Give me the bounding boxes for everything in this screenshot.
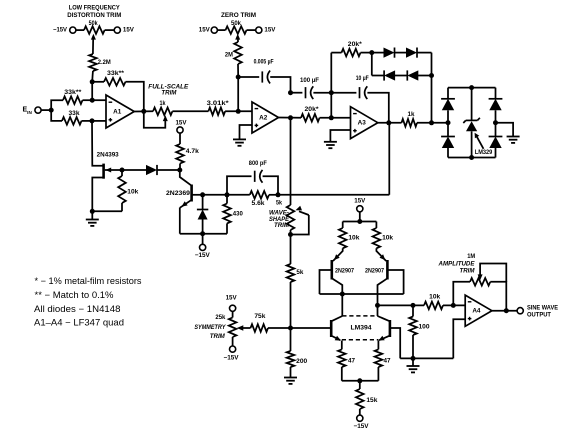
resistor 100 xyxy=(412,305,414,316)
wire xyxy=(343,221,377,223)
svg-text:4.7k: 4.7k xyxy=(186,148,200,155)
wire xyxy=(172,110,208,112)
wire base cross rail xyxy=(320,293,404,295)
svg-text:DISTORTION TRIM: DISTORTION TRIM xyxy=(67,12,121,19)
capacitor 800 pF xyxy=(254,171,256,182)
svg-text:−15V: −15V xyxy=(53,27,68,34)
ground (A3 +) xyxy=(324,141,337,143)
terminal -15V (distortion trim) xyxy=(70,27,76,33)
op-amp A2 xyxy=(252,102,279,133)
transistor Q2 2N2369 xyxy=(180,170,192,186)
svg-text:A4: A4 xyxy=(472,308,481,315)
wire A1 output xyxy=(134,110,153,112)
wire emitter rail xyxy=(180,233,227,235)
svg-text:TRIM: TRIM xyxy=(274,222,290,229)
node A4 inverting input xyxy=(451,303,456,308)
wire xyxy=(453,282,470,306)
resistor 2.2M xyxy=(89,54,97,71)
svg-text:5k: 5k xyxy=(296,269,304,276)
diode D5 xyxy=(384,70,395,80)
resistor 47 (right) xyxy=(375,349,383,367)
terminal -15V (symmetry) xyxy=(230,346,236,352)
svg-text:TRIM: TRIM xyxy=(460,267,476,274)
resistor 10k (gate) xyxy=(121,170,123,176)
wire to A3 output xyxy=(278,194,389,196)
svg-text:2N2369: 2N2369 xyxy=(166,190,191,197)
node EIN split xyxy=(49,108,54,113)
node A1 noninverting input xyxy=(90,118,95,123)
node bridge top xyxy=(469,85,474,90)
diode D3 xyxy=(384,48,395,58)
op-amp A3 xyxy=(351,107,378,139)
svg-text:33k: 33k xyxy=(69,110,81,117)
terminal sine wave output xyxy=(517,308,523,314)
node left collector xyxy=(340,292,345,297)
svg-text:430: 430 xyxy=(233,210,244,217)
svg-text:2M: 2M xyxy=(225,51,233,58)
zener LM329 xyxy=(471,88,473,121)
svg-text:75k: 75k xyxy=(254,313,266,320)
node JFET gate xyxy=(120,168,125,173)
wire xyxy=(41,109,51,111)
wire xyxy=(359,212,361,222)
resistor 20k* (feedback) xyxy=(331,52,341,54)
resistor 10k (left) xyxy=(342,222,344,229)
wiper symmetry trim xyxy=(237,325,244,331)
svg-text:15V: 15V xyxy=(199,27,211,34)
wire LM394 right base xyxy=(390,328,400,358)
terminal -15V (15k) xyxy=(357,415,363,421)
diode D10 (bridge bottom-right) xyxy=(495,123,497,137)
resistor 10k (A4 input) xyxy=(424,302,443,310)
svg-text:−15V: −15V xyxy=(224,354,240,361)
svg-text:800 pF: 800 pF xyxy=(249,160,267,167)
resistor 5.6k xyxy=(227,194,250,196)
wire xyxy=(372,52,384,54)
node right collector xyxy=(375,303,380,308)
node ground rail xyxy=(411,356,416,361)
capacitor 10 uF xyxy=(331,92,356,94)
wire A1 + to JFET drain xyxy=(92,121,103,166)
resistor 200 xyxy=(290,328,292,351)
node collector junction xyxy=(177,168,182,173)
resistor 4.7k xyxy=(176,144,184,164)
potentiometer 25k symmetry trim xyxy=(232,311,234,317)
node A1 inverting input xyxy=(90,98,95,103)
wire xyxy=(443,304,465,306)
transistor Q1 2N4393 xyxy=(102,164,105,179)
svg-text:A3: A3 xyxy=(358,120,367,127)
svg-text:1M: 1M xyxy=(467,253,475,260)
wire xyxy=(82,120,93,122)
node 100uF junction xyxy=(329,90,334,95)
svg-text:2N4393: 2N4393 xyxy=(97,152,120,159)
wire xyxy=(372,75,384,77)
resistor 75k xyxy=(251,324,269,332)
wire xyxy=(105,29,115,31)
svg-text:200: 200 xyxy=(296,358,308,365)
wire xyxy=(92,81,104,83)
wire xyxy=(268,327,291,329)
svg-text:* − 1% metal-film resistors: * − 1% metal-film resistors xyxy=(35,276,143,286)
svg-text:20k*: 20k* xyxy=(305,106,320,113)
svg-text:SYMMETRY: SYMMETRY xyxy=(194,324,226,331)
svg-text:10k: 10k xyxy=(382,235,394,242)
wire A4 output xyxy=(492,310,517,312)
svg-text:33k**: 33k** xyxy=(107,70,125,77)
node feedback junction A1 xyxy=(90,79,95,84)
wire xyxy=(290,230,292,235)
node A3 output xyxy=(386,120,391,125)
svg-text:2N2907: 2N2907 xyxy=(365,267,384,274)
wire A3 + to ground xyxy=(330,130,350,142)
svg-text:5.6k: 5.6k xyxy=(252,200,266,207)
svg-text:47: 47 xyxy=(348,357,356,364)
wire xyxy=(179,133,181,144)
resistor 1k xyxy=(402,119,418,127)
svg-text:2N2907: 2N2907 xyxy=(335,267,354,274)
wire xyxy=(417,122,448,124)
wire xyxy=(91,82,93,100)
diode D6 xyxy=(407,70,418,80)
svg-text:ZERO TRIM: ZERO TRIM xyxy=(221,12,256,19)
wire xyxy=(227,176,252,195)
wire xyxy=(83,99,93,101)
svg-text:25k: 25k xyxy=(215,314,226,321)
svg-text:100: 100 xyxy=(419,324,431,331)
svg-text:10 µF: 10 µF xyxy=(356,75,369,82)
svg-text:50k: 50k xyxy=(231,20,242,27)
node bridge right xyxy=(493,120,498,125)
wire xyxy=(313,92,331,94)
capacitor 0.005 uF xyxy=(238,76,259,78)
ground (JFET source) xyxy=(91,211,93,219)
svg-text:LM329: LM329 xyxy=(475,149,493,156)
svg-text:TRIM: TRIM xyxy=(161,89,177,96)
svg-text:10k: 10k xyxy=(348,235,360,242)
resistor 2M xyxy=(234,42,242,64)
node JFET source xyxy=(90,209,95,214)
wire A2 + to ground xyxy=(240,125,253,139)
node 100uF tap xyxy=(288,90,293,95)
wire xyxy=(496,123,514,137)
node A4 output xyxy=(504,308,509,313)
ground (A2 +) xyxy=(233,138,246,140)
svg-text:3.01k*: 3.01k* xyxy=(207,100,230,107)
wire ground rail xyxy=(400,357,453,359)
svg-text:10k: 10k xyxy=(429,294,441,301)
svg-text:AMPLITUDE: AMPLITUDE xyxy=(438,260,476,267)
node A1 output xyxy=(141,109,146,114)
wiper of distortion trim xyxy=(91,34,96,40)
wire A4 + return xyxy=(453,319,465,358)
svg-text:LOW FREQUENCY: LOW FREQUENCY xyxy=(69,5,121,12)
ground (200) xyxy=(284,377,297,379)
wire xyxy=(203,194,227,196)
label LM329 with leader xyxy=(476,135,484,149)
svg-text:A2: A2 xyxy=(259,114,268,121)
wire xyxy=(237,77,239,111)
potentiometer 1M amplitude trim xyxy=(470,278,490,286)
wire xyxy=(126,82,144,112)
svg-text:OUTPUT: OUTPUT xyxy=(527,312,551,319)
svg-text:2.2M: 2.2M xyxy=(98,59,111,66)
transistor Q4 2N2907 (right) xyxy=(376,248,386,261)
wire xyxy=(179,164,181,171)
node diode string left xyxy=(369,50,374,55)
svg-text:20k*: 20k* xyxy=(348,41,363,48)
node 430 junction xyxy=(225,192,230,197)
wire A3 input riser xyxy=(330,53,332,118)
svg-text:TRIM: TRIM xyxy=(210,333,226,340)
svg-text:A1: A1 xyxy=(113,108,122,115)
diode D1 (gate) xyxy=(146,165,157,175)
svg-text:10k: 10k xyxy=(127,189,139,196)
wire xyxy=(237,64,239,77)
resistor 33k** feedback A1 xyxy=(104,78,126,86)
svg-text:15V: 15V xyxy=(354,198,366,205)
wire bridge top rail xyxy=(448,87,496,89)
wiper amplitude trim xyxy=(478,274,483,280)
wire xyxy=(157,169,180,171)
svg-text:−15V: −15V xyxy=(354,423,370,430)
node A2 output xyxy=(288,115,293,120)
wire xyxy=(51,110,62,121)
wire xyxy=(490,282,506,311)
node 0.005uF tap xyxy=(236,75,241,80)
resistor 47 (left) xyxy=(338,349,346,367)
resistor 33k (A1 + input) xyxy=(62,117,82,125)
wire xyxy=(76,29,84,31)
svg-text:** − Match to 0.1%: ** − Match to 0.1% xyxy=(35,290,114,300)
potentiometer 50k distortion trim xyxy=(84,26,105,34)
wire LM394 left collector xyxy=(341,294,343,316)
JFET gate lead with arrow xyxy=(105,169,122,171)
svg-text:All diodes − 1N4148: All diodes − 1N4148 xyxy=(34,304,121,314)
transistor U1 LM394 xyxy=(330,320,333,337)
wiper full-scale trim xyxy=(144,111,166,127)
node bridge left xyxy=(446,120,451,125)
resistor 430 xyxy=(226,195,228,204)
wire xyxy=(247,29,256,31)
wire xyxy=(417,52,432,54)
node symmetry junction xyxy=(288,326,293,331)
wire A3 output xyxy=(378,122,402,124)
wire xyxy=(378,304,425,306)
node bridge bottom xyxy=(469,155,474,160)
capacitor 100 uF xyxy=(291,92,303,94)
wire emitter rail xyxy=(342,380,379,382)
wire LM394 left base xyxy=(291,327,332,329)
potentiometer 1k full-scale trim xyxy=(153,108,172,116)
node wave trim bottom xyxy=(288,232,293,237)
svg-text:LM394: LM394 xyxy=(351,324,373,331)
node A3 inverting input xyxy=(329,115,334,120)
svg-text:1k: 1k xyxy=(160,100,166,107)
ground (bridge) xyxy=(507,136,520,138)
node -15V rail xyxy=(200,231,205,236)
resistor 3.01k* xyxy=(208,108,225,116)
wire xyxy=(367,93,388,123)
node emitter rail xyxy=(357,378,362,383)
wire xyxy=(217,29,225,31)
terminal 15V (distortion trim) xyxy=(114,27,120,33)
potentiometer 5k wave shape trim xyxy=(287,205,295,230)
wire feedback return xyxy=(431,53,433,123)
node diode string right xyxy=(429,73,434,78)
svg-text:SINE WAVE: SINE WAVE xyxy=(527,305,558,312)
svg-text:1k: 1k xyxy=(408,111,416,118)
wire xyxy=(394,52,406,54)
svg-text:15V: 15V xyxy=(176,120,188,127)
svg-text:A1–A4 − LF347 quad: A1–A4 − LF347 quad xyxy=(34,318,124,328)
diode D4 xyxy=(406,48,417,58)
svg-text:−15V: −15V xyxy=(195,252,211,259)
resistor 20k* (A3 input) xyxy=(301,114,320,122)
op-amp A1 xyxy=(106,95,134,128)
resistor 15k xyxy=(359,381,361,389)
wire xyxy=(371,53,373,76)
wire xyxy=(225,110,252,112)
resistor 5k xyxy=(290,235,292,265)
node 5.6k / 800pF junction xyxy=(276,192,281,197)
wire xyxy=(92,210,122,212)
svg-text:15V: 15V xyxy=(123,27,135,34)
wire xyxy=(51,100,63,110)
diode D9 (bridge top-right) xyxy=(495,88,497,99)
diode D2 (clamp to -15V) xyxy=(202,195,204,210)
potentiometer 50k zero trim xyxy=(226,26,247,34)
wire A2 output xyxy=(279,117,302,119)
wire A1 + input xyxy=(92,120,106,122)
wire xyxy=(320,117,351,119)
node feedback / 1k junction xyxy=(429,120,434,125)
diode D7 (bridge top-left) xyxy=(447,88,449,99)
svg-text:15V: 15V xyxy=(264,27,276,34)
svg-text:5k: 5k xyxy=(276,199,282,206)
wiper zero trim xyxy=(235,34,240,40)
wire bridge bottom rail xyxy=(448,157,496,159)
wire xyxy=(91,71,94,82)
node A2 inverting input xyxy=(236,109,241,114)
wire A1 - input xyxy=(92,99,106,101)
wire xyxy=(270,77,290,93)
svg-text:15k: 15k xyxy=(366,397,378,404)
svg-text:33k**: 33k** xyxy=(64,89,82,96)
diode D8 (bridge bottom-left) xyxy=(447,123,449,137)
resistor 33k** (A1 - input) xyxy=(63,96,83,104)
node 2N2369 base xyxy=(200,192,205,197)
ground (LM394) xyxy=(412,358,414,366)
svg-text:0.005 µF: 0.005 µF xyxy=(254,59,274,66)
terminal EIN xyxy=(35,107,41,113)
wiper wave shape trim xyxy=(291,215,309,235)
wire A3 output drop xyxy=(388,123,390,195)
wire xyxy=(418,75,432,77)
wire LM394 right collector xyxy=(377,305,379,316)
svg-text:15V: 15V xyxy=(226,295,238,302)
wire A2 output drop xyxy=(290,118,292,205)
transistor Q3 2N2907 (left) xyxy=(333,248,343,261)
node 15V rail xyxy=(357,219,362,224)
JFET source lead xyxy=(92,178,103,212)
wire xyxy=(263,176,278,195)
resistor 10k (right) xyxy=(375,222,377,229)
svg-text:100 µF: 100 µF xyxy=(300,77,319,84)
wire xyxy=(395,75,408,77)
terminal -15V (2N2369) xyxy=(202,234,204,245)
node 100 junction xyxy=(411,303,416,308)
svg-text:47: 47 xyxy=(384,357,392,364)
wire xyxy=(122,169,146,171)
terminal 15V (zero trim right) xyxy=(256,27,262,33)
op-amp A4 xyxy=(465,295,492,326)
